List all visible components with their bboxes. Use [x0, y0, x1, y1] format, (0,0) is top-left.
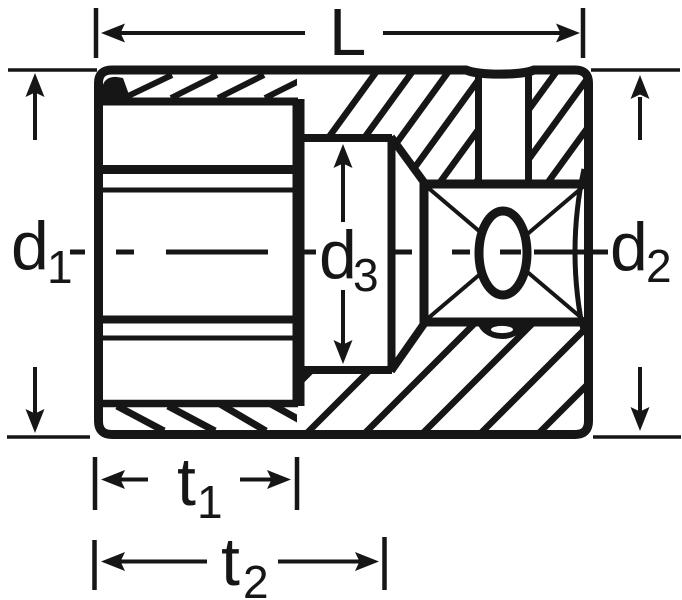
svg-text:d: d — [610, 209, 648, 285]
centerline dash-dot — [70, 250, 608, 255]
cavity diagonal 2 — [426, 186, 584, 320]
t1 right arrow — [240, 478, 274, 482]
t1 left arrow — [118, 478, 148, 482]
d3 bore end face — [388, 136, 396, 372]
d2 bottom arrow — [638, 367, 642, 412]
svg-text:t: t — [221, 524, 240, 600]
svg-text:t: t — [177, 444, 196, 520]
interior top wall inner edge — [98, 98, 298, 106]
d1 bottom extension line — [7, 435, 90, 439]
d3 bore bottom line — [298, 366, 392, 374]
hatch bottom-left band — [117, 403, 314, 431]
t1 right tick — [295, 457, 300, 510]
svg-text:2: 2 — [243, 556, 269, 600]
cavity diagonal 1 — [426, 186, 584, 320]
taper bottom — [391, 321, 426, 371]
svg-text:1: 1 — [197, 476, 223, 528]
hex profile line upper outer — [98, 165, 298, 174]
d1 top extension line — [8, 68, 97, 72]
hex profile line upper inner — [98, 188, 298, 193]
square drive cavity top line — [422, 180, 589, 189]
d2 top arrow — [638, 97, 642, 140]
d3 double arrow — [341, 162, 345, 222]
dimension L right tick — [581, 8, 586, 58]
hatch upper-right regions — [286, 64, 682, 196]
svg-text:d: d — [319, 217, 357, 293]
square drive cavity bottom line — [422, 318, 589, 327]
hex profile line lower outer — [98, 336, 298, 341]
svg-text:L: L — [329, 0, 366, 70]
hatch top-left band — [126, 75, 311, 98]
svg-text:3: 3 — [353, 249, 379, 301]
d2 top extension line — [591, 68, 680, 72]
detent ball ellipse — [479, 211, 527, 295]
t2 left tick — [92, 540, 97, 590]
d3 bore top line — [298, 134, 392, 142]
d1 bottom arrow — [33, 367, 37, 414]
hatch lower-right region — [246, 316, 682, 436]
taper top — [391, 137, 426, 185]
square drive cavity near face — [420, 182, 429, 324]
interior bottom wall inner edge — [98, 400, 298, 408]
t2 left arrow — [118, 560, 207, 564]
wall between hex opening and d3 bore — [293, 99, 305, 406]
svg-text:2: 2 — [646, 240, 672, 292]
d1 top arrow — [33, 92, 37, 140]
svg-text:d: d — [11, 208, 49, 284]
detent ball seat arc — [477, 319, 527, 339]
detent ball hole walls — [475, 72, 482, 184]
L arrowhead left — [101, 24, 125, 43]
svg-text:1: 1 — [47, 241, 73, 293]
L arrowhead right — [556, 24, 580, 43]
drive end arc — [575, 169, 584, 335]
t2 right arrow — [278, 560, 362, 564]
t1 left tick — [93, 457, 98, 510]
socket body outline — [99, 70, 589, 435]
hex profile line lower inner — [98, 316, 298, 324]
dimension L line left — [118, 31, 305, 35]
dimension L left tick — [94, 8, 99, 58]
t2 right tick — [382, 537, 387, 590]
dimension L line right — [383, 31, 566, 35]
corner chamfer hump — [102, 77, 132, 103]
d2 bottom extension line — [593, 435, 681, 439]
